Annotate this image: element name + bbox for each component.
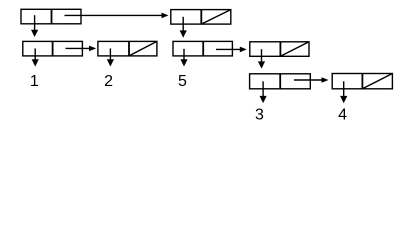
arrowhead to label 5 [180, 59, 187, 66]
svg-text:1: 1 [30, 73, 39, 90]
svg-text:4: 4 [338, 106, 347, 123]
cons cell A (row1 left) [21, 9, 81, 23]
svg-text:2: 2 [104, 73, 113, 90]
svg-text:3: 3 [255, 106, 264, 123]
arrowhead to label 2 [107, 59, 114, 66]
arrow F.car down to G (wire) [261, 49, 263, 63]
arrowhead into D [89, 46, 96, 52]
cons cell D (row2, nil cdr) [98, 41, 157, 56]
arrow G.car down to 3 (wire) [262, 81, 264, 97]
arrowhead into E [180, 30, 187, 37]
arrowhead into C [31, 30, 38, 37]
arrow C.car down to 1 (wire) [34, 48, 36, 61]
arrowhead into G [258, 61, 265, 68]
arrowhead to label 1 [32, 59, 39, 66]
arrow E.cdr to F (wire) [216, 48, 241, 50]
arrow C.cdr to D (wire) [66, 47, 91, 49]
arrow A.cdr to B (wire) [65, 14, 163, 16]
svg-text:5: 5 [178, 73, 187, 90]
nil slash in F [280, 42, 309, 57]
cons cell B (row1 right, nil cdr) [171, 10, 231, 25]
arrow D.car down to 2 (wire) [109, 48, 111, 61]
arrowhead to label 4 [340, 96, 347, 103]
arrow E.car down to 5 (wire) [183, 49, 185, 61]
nil slash in H [362, 74, 392, 89]
cons cell E (row2, below B) [173, 41, 232, 56]
arrow H.car down to 4 (wire) [343, 81, 345, 97]
cons cell G (row3 left) [250, 74, 311, 89]
nil slash in D [129, 41, 157, 56]
nil slash in B [201, 10, 231, 25]
arrowhead into H [322, 77, 329, 83]
arrow A.car down to C (wire) [34, 15, 36, 31]
arrowhead into F [240, 47, 247, 53]
arrow B.car down to E (wire) [182, 17, 184, 33]
arrow G.cdr to H (wire) [294, 79, 323, 81]
cons cell H (row3 right, nil cdr) [332, 74, 392, 89]
arrowhead to label 3 [260, 96, 267, 103]
cons cell F (row2 right, nil cdr) [250, 42, 309, 57]
arrowhead into B [162, 13, 169, 19]
cons cell C (row2, below A) [23, 41, 83, 56]
